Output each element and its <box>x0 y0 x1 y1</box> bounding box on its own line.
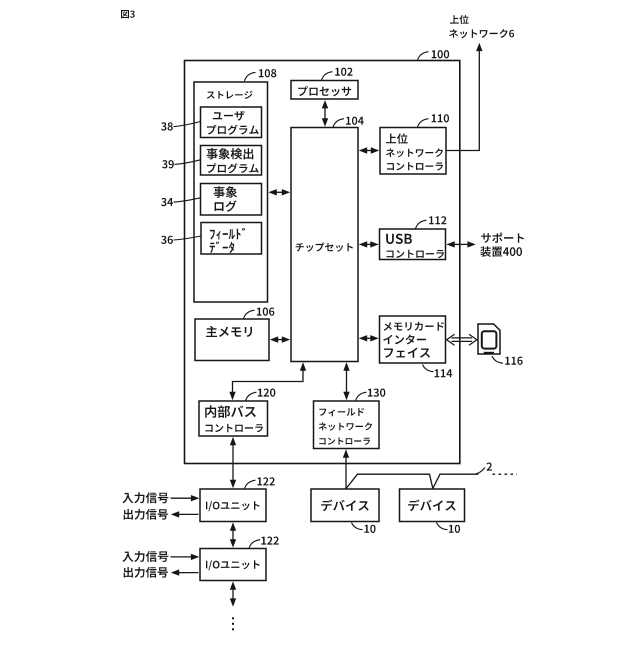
arrow: chipset-usb controller <box>359 241 379 247</box>
main memory box 106 <box>195 319 269 361</box>
label 10 second <box>437 523 461 534</box>
arrow: internal bus controller-io unit 1 <box>230 437 236 488</box>
label 36 <box>161 236 201 244</box>
arrow: chipset-field network controller <box>343 362 349 400</box>
label 130 <box>356 389 386 401</box>
upper network controller box 110 <box>380 128 446 175</box>
label 114 <box>423 365 453 378</box>
wire: to upper network with up arrow <box>446 43 482 151</box>
output arrow 2 <box>171 569 199 575</box>
input arrow 1 <box>171 495 200 501</box>
label 34 <box>161 198 200 206</box>
io unit box 122 (first) <box>200 489 266 522</box>
label 2 <box>476 463 492 475</box>
storage title <box>207 91 253 99</box>
wire: field network controller to bus with up arrow <box>343 449 349 488</box>
label 100 <box>418 50 450 60</box>
input arrow 2 <box>171 554 200 560</box>
usb controller box 112 <box>380 229 446 260</box>
bus dashed continuation <box>493 473 518 475</box>
label 122 first <box>245 477 275 489</box>
field network controller box 130 <box>314 401 380 449</box>
storage box 108 <box>194 82 268 302</box>
arrow: storage-chipset <box>268 189 290 195</box>
arrow: usb controller-support device <box>446 241 476 247</box>
input signal label 2 <box>122 551 168 562</box>
open arrow: memory card interface-memory card <box>447 334 477 345</box>
upper network label <box>449 15 514 38</box>
chipset box 104 <box>291 128 358 362</box>
arrow: io unit 1-io unit 2 <box>230 522 236 547</box>
arrow: processor-chipset <box>322 100 328 127</box>
user program box 38 <box>201 107 262 138</box>
label 106 <box>244 308 275 319</box>
memory card interface box 114 <box>380 316 446 363</box>
field data box 36 <box>201 223 262 255</box>
device box 10 (first) <box>311 489 379 522</box>
label 122 second <box>249 537 279 549</box>
output signal label 2 <box>124 567 168 578</box>
io unit box 122 (second) <box>200 549 266 581</box>
output signal label 1 <box>124 509 168 520</box>
field network bus 2 <box>346 474 479 488</box>
internal bus controller box 120 <box>199 401 268 436</box>
label 102 <box>322 68 353 81</box>
figure number <box>121 10 135 18</box>
label 10 first <box>352 523 376 534</box>
arrow: io unit 2 continues <box>230 581 236 606</box>
event log box 34 <box>201 184 262 216</box>
label 120 <box>246 389 276 401</box>
label 110 <box>418 114 450 127</box>
label 112 <box>416 216 447 229</box>
outer box: control unit 100 <box>185 61 460 464</box>
arrow: main memory-chipset <box>270 336 290 342</box>
label 38 <box>161 122 200 131</box>
device box 10 (second) <box>400 489 465 522</box>
label 108 <box>245 69 277 81</box>
arrow: chipset-upper network controller <box>359 147 379 153</box>
processor box 102 <box>291 81 358 100</box>
label 116 <box>492 356 523 365</box>
label 39 <box>162 160 200 169</box>
output arrow 1 <box>171 511 199 517</box>
event detection program box 39 <box>201 146 262 176</box>
wire: chipset-internal bus controller L-shape <box>229 362 306 400</box>
ellipsis dots below io units <box>232 617 234 630</box>
label 104 <box>333 117 364 128</box>
arrow: chipset-memory card interface <box>359 335 379 341</box>
support device label <box>480 233 524 257</box>
input signal label 1 <box>122 492 168 503</box>
memory card 116 icon <box>478 324 500 354</box>
